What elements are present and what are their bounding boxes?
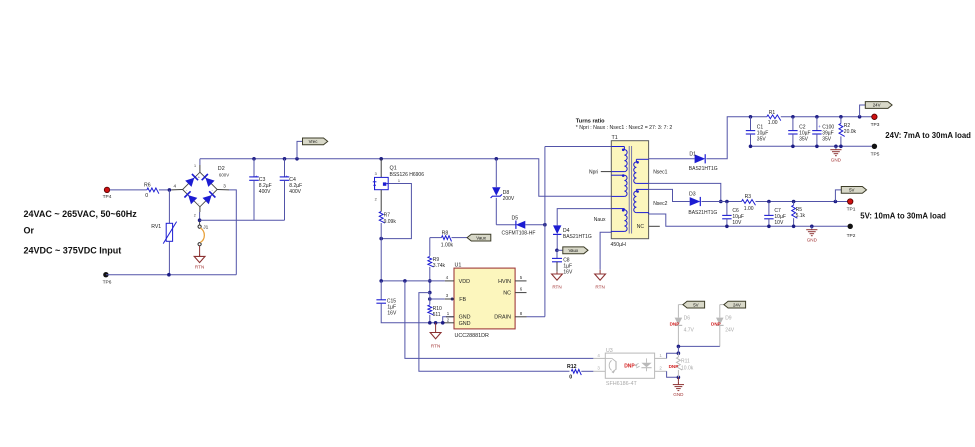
svg-text:DRAIN: DRAIN xyxy=(494,315,511,321)
wire DRAIN to riser xyxy=(527,316,545,318)
svg-text:TP1: TP1 xyxy=(847,207,856,213)
resistor R2 xyxy=(839,117,857,147)
ground GND 24V xyxy=(830,146,841,162)
turns ratio note xyxy=(576,119,673,131)
svg-text:1.00k: 1.00k xyxy=(441,242,454,248)
svg-text:5V: 5V xyxy=(849,188,854,193)
wire Nsec2 top to D3 xyxy=(649,189,690,201)
wire 5V rail xyxy=(702,200,848,204)
svg-text:1.00: 1.00 xyxy=(744,206,754,212)
24V load text xyxy=(885,131,971,140)
svg-text:RTN: RTN xyxy=(431,344,440,349)
wire drain riser xyxy=(545,147,611,317)
opto coupler U3 xyxy=(593,348,666,387)
svg-text:C4: C4 xyxy=(289,177,296,183)
wire FB to R12 xyxy=(419,293,570,372)
svg-text:RV1: RV1 xyxy=(151,224,161,230)
svg-text:1: 1 xyxy=(194,164,196,168)
svg-text:DNP: DNP xyxy=(711,321,721,326)
svg-text:Vrec: Vrec xyxy=(309,139,319,144)
capacitor C4 xyxy=(280,159,302,220)
resistor R1 xyxy=(767,110,781,126)
svg-text:TP3: TP3 xyxy=(871,122,880,128)
svg-text:3: 3 xyxy=(375,172,377,176)
capacitor C1 xyxy=(746,117,769,147)
svg-text:C8: C8 xyxy=(563,257,570,263)
svg-text:35V: 35V xyxy=(822,136,832,142)
svg-text:TP4: TP4 xyxy=(103,194,112,200)
svg-text:450µH: 450µH xyxy=(611,242,627,248)
svg-text:GND: GND xyxy=(673,392,684,397)
svg-text:D1: D1 xyxy=(689,151,696,157)
svg-text:4.7V: 4.7V xyxy=(684,328,695,334)
svg-text:Or: Or xyxy=(24,226,35,236)
wire VDD to opto pin4 xyxy=(405,281,594,359)
svg-text:RTN: RTN xyxy=(552,285,561,290)
wire FB net xyxy=(430,298,454,301)
svg-text:D2: D2 xyxy=(218,166,225,172)
svg-text:TP5: TP5 xyxy=(871,152,880,158)
svg-text:D9: D9 xyxy=(725,316,732,322)
net flag Vaux at C8 xyxy=(555,247,588,254)
svg-text:600V: 600V xyxy=(219,173,229,178)
svg-text:TP6: TP6 xyxy=(103,280,112,286)
test point TP4 xyxy=(103,187,112,200)
svg-text:SFH6186-4T: SFH6186-4T xyxy=(606,381,638,387)
svg-text:Vaux: Vaux xyxy=(568,248,578,253)
svg-text:8.2µF: 8.2µF xyxy=(289,183,302,189)
svg-text:FB: FB xyxy=(459,297,466,303)
wire bridge bottom to caps-return xyxy=(198,212,285,222)
svg-text:Vaux: Vaux xyxy=(476,235,486,240)
5V load text xyxy=(860,212,946,221)
svg-text:16V: 16V xyxy=(387,310,397,316)
net flag 24V at zener xyxy=(724,301,746,308)
wire Vrec top rail xyxy=(200,157,611,196)
wire Nsec1 bottom to 5V node xyxy=(649,183,723,203)
svg-text:24V: 24V xyxy=(733,302,741,307)
svg-text:D4: D4 xyxy=(563,228,570,234)
svg-text:24VAC ~ 265VAC, 50~60Hz: 24VAC ~ 265VAC, 50~60Hz xyxy=(24,209,138,219)
svg-text:24V: 24V xyxy=(873,103,881,108)
svg-text:D3: D3 xyxy=(689,191,696,197)
svg-text:35V: 35V xyxy=(757,136,767,142)
ground GND opto xyxy=(673,377,684,397)
svg-text:DNP: DNP xyxy=(670,321,680,326)
svg-text:GND: GND xyxy=(807,237,818,242)
capacitor C6 xyxy=(722,202,744,227)
svg-text:TP2: TP2 xyxy=(847,233,856,239)
capacitor C2 xyxy=(788,117,810,147)
svg-text:UCC28881DR: UCC28881DR xyxy=(455,333,490,339)
capacitor C15 xyxy=(376,281,445,323)
svg-text:* Npri : Naux : Nsec1 : Nsec2: * Npri : Naux : Nsec1 : Nsec2 = 27: 3: 7… xyxy=(576,125,673,131)
svg-text:10V: 10V xyxy=(774,220,784,226)
svg-text:NC: NC xyxy=(503,291,511,297)
svg-text:R12: R12 xyxy=(567,364,577,370)
svg-text:D5: D5 xyxy=(512,216,519,222)
jumper J1 xyxy=(198,222,209,246)
wire Naux bottom xyxy=(600,232,611,270)
test point TP6 xyxy=(103,272,112,286)
net flag 5V at zener xyxy=(683,301,705,308)
svg-text:DNP: DNP xyxy=(669,364,679,369)
svg-text:0: 0 xyxy=(569,375,572,381)
test point TP3 xyxy=(871,114,880,128)
svg-text:BAS21HT1G: BAS21HT1G xyxy=(563,234,592,240)
svg-text:2: 2 xyxy=(375,197,377,201)
transformer T1 xyxy=(589,135,668,248)
svg-text:R11: R11 xyxy=(681,358,690,364)
wire Nsec2 bottom to 5V return xyxy=(649,214,848,228)
capacitor C8 xyxy=(552,250,573,275)
svg-text:0: 0 xyxy=(145,193,148,199)
svg-text:Nsec2: Nsec2 xyxy=(653,201,667,207)
svg-text:HVIN: HVIN xyxy=(498,279,511,285)
svg-text:10V: 10V xyxy=(732,220,742,226)
net flag Vaux at R8 xyxy=(467,234,491,241)
svg-text:Nsec1: Nsec1 xyxy=(653,170,667,176)
zener diode D9 DNP xyxy=(711,305,735,347)
bridge rectifier D2 xyxy=(172,164,230,218)
svg-text:24V: 7mA to 30mA load: 24V: 7mA to 30mA load xyxy=(885,131,971,140)
diode D3 xyxy=(688,191,717,216)
resistor R5 xyxy=(792,202,806,227)
wire D1 to 24V rail xyxy=(706,117,750,159)
svg-text:511: 511 xyxy=(433,312,441,318)
test point TP2 xyxy=(847,224,856,239)
svg-text:4: 4 xyxy=(174,184,177,189)
svg-text:CSFMT108-HF: CSFMT108-HF xyxy=(502,231,536,237)
resistor R3 xyxy=(742,194,756,212)
svg-text:R6: R6 xyxy=(144,182,151,188)
zener diode D6 DNP xyxy=(670,305,695,347)
wire zener junction xyxy=(677,345,720,354)
capacitor C7 xyxy=(764,202,786,227)
test point TP1 xyxy=(847,199,856,213)
wire Nsec1 to D1 xyxy=(649,158,695,160)
svg-text:Npri: Npri xyxy=(589,170,598,176)
ground RTN at C8 xyxy=(552,272,563,290)
svg-text:R8: R8 xyxy=(442,231,449,237)
svg-text:U1: U1 xyxy=(455,262,462,268)
resistor R7 xyxy=(379,212,396,281)
resistor R8 xyxy=(430,231,467,249)
svg-text:R3: R3 xyxy=(745,194,752,200)
svg-text:3.74k: 3.74k xyxy=(433,263,446,269)
svg-text:J1: J1 xyxy=(203,224,208,230)
capacitor C3 xyxy=(249,159,271,220)
wire Q1 gate loop xyxy=(379,184,411,241)
svg-text:D8: D8 xyxy=(503,190,510,196)
wire 24V bottom rail xyxy=(749,145,872,149)
svg-text:·: · xyxy=(198,201,199,206)
svg-text:10.0k: 10.0k xyxy=(681,366,694,372)
svg-text:R7: R7 xyxy=(384,213,391,219)
svg-text:9.09k: 9.09k xyxy=(384,219,397,225)
test point TP5 xyxy=(871,144,880,158)
wire 24V rail xyxy=(749,115,872,119)
svg-text:1: 1 xyxy=(398,179,400,183)
svg-text:5V: 5V xyxy=(693,302,698,307)
ground GND 5V xyxy=(806,226,817,242)
svg-text:400V: 400V xyxy=(259,189,271,195)
diode D5 xyxy=(496,216,546,237)
svg-text:GND: GND xyxy=(459,315,471,321)
svg-text:24VDC ~ 375VDC Input: 24VDC ~ 375VDC Input xyxy=(24,245,122,255)
zener diode D8 xyxy=(491,159,515,225)
svg-text:BAS21HT1G: BAS21HT1G xyxy=(688,210,717,216)
svg-text:20.0k: 20.0k xyxy=(844,129,857,135)
resistor R6 xyxy=(144,182,159,199)
svg-text:3: 3 xyxy=(223,183,226,188)
wire opto pin2 to divider xyxy=(667,371,681,379)
ground RTN input xyxy=(194,246,205,270)
svg-text:NC: NC xyxy=(637,224,645,230)
ground RTN at U1 xyxy=(430,321,441,349)
resistor R12 xyxy=(567,364,593,381)
svg-text:RTN: RTN xyxy=(195,265,204,270)
svg-text:1.00: 1.00 xyxy=(768,120,778,126)
wire input bottom rail xyxy=(106,190,236,277)
svg-text:35V: 35V xyxy=(799,136,809,142)
net flag 5V output xyxy=(835,187,866,202)
svg-text:2: 2 xyxy=(194,213,196,217)
input label text xyxy=(24,209,138,255)
svg-text:RTN: RTN xyxy=(595,285,604,290)
transistor Q1 xyxy=(373,159,424,212)
diode D1 xyxy=(689,151,718,172)
svg-text:BSS126 H6906: BSS126 H6906 xyxy=(390,172,425,178)
svg-text:Naux: Naux xyxy=(594,217,606,223)
svg-text:16V: 16V xyxy=(563,269,573,275)
resistor R9 xyxy=(428,238,446,293)
svg-text:24V: 24V xyxy=(725,328,735,334)
op-amp U1 controller UCC28881DR xyxy=(441,262,527,339)
wire VDD net xyxy=(379,279,444,283)
varistor RV1 xyxy=(151,190,176,275)
net flag Vrec xyxy=(297,138,328,159)
svg-text:VDD: VDD xyxy=(459,279,470,285)
wire R6 to bridge xyxy=(159,188,172,192)
svg-text:200V: 200V xyxy=(503,196,515,202)
svg-text:400V: 400V xyxy=(289,189,301,195)
svg-text:5V: 10mA to 30mA load: 5V: 10mA to 30mA load xyxy=(860,212,946,221)
wire TP4 to R6 xyxy=(110,189,147,191)
ground RTN at Naux xyxy=(595,270,606,290)
svg-text:D6: D6 xyxy=(684,316,691,322)
svg-text:T1: T1 xyxy=(612,135,618,141)
svg-text:GND: GND xyxy=(831,157,842,162)
diode D4 xyxy=(553,209,611,251)
resistor R10 xyxy=(428,291,442,325)
svg-text:BAS21HT1G: BAS21HT1G xyxy=(689,166,718,172)
svg-text:Q1: Q1 xyxy=(390,166,397,172)
net flag 24V output xyxy=(860,102,893,117)
svg-text:5.1k: 5.1k xyxy=(796,213,806,219)
svg-text:R1: R1 xyxy=(769,110,776,116)
svg-text:GND: GND xyxy=(459,321,471,327)
svg-text:DNP: DNP xyxy=(624,363,635,369)
wire opto pin1 to divider xyxy=(667,351,681,358)
svg-text:8.2µF: 8.2µF xyxy=(259,183,272,189)
svg-text:Turns ratio: Turns ratio xyxy=(576,119,605,125)
svg-text:C3: C3 xyxy=(259,177,266,183)
svg-text:U3: U3 xyxy=(606,348,613,354)
resistor R11 DNP xyxy=(669,353,694,377)
capacitor C100 xyxy=(812,117,834,147)
